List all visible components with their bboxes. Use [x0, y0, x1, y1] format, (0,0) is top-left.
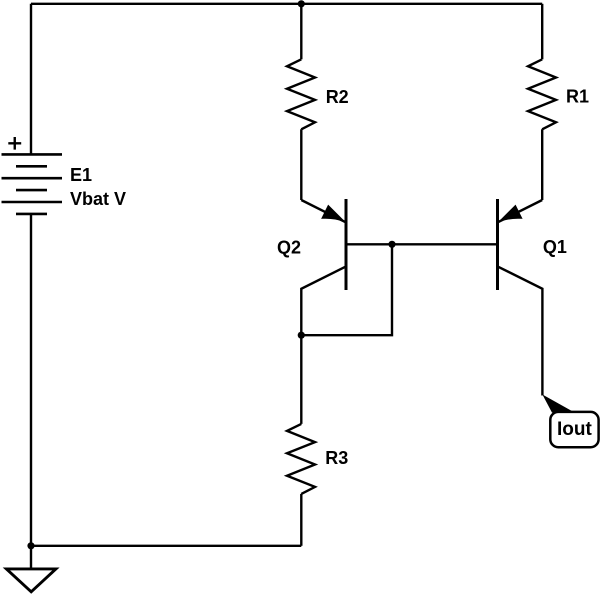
- transistor Q1 base bar: [496, 199, 499, 290]
- ground stub: [30, 546, 32, 569]
- svg-text:Q2: Q2: [277, 237, 301, 257]
- battery plus sign: [8, 137, 21, 150]
- wire: base to collector feedback: [301, 244, 392, 335]
- wire: top bus: [31, 3, 542, 5]
- wire: R1 top lead: [541, 4, 543, 60]
- ground: [6, 569, 56, 592]
- resistor R2: [287, 59, 315, 129]
- svg-text:Iout: Iout: [557, 419, 592, 440]
- wire: R2 bottom lead: [300, 129, 302, 200]
- node: collector / R3 junction: [298, 332, 305, 339]
- svg-text:Vbat V: Vbat V: [70, 189, 126, 209]
- svg-text:E1: E1: [70, 165, 92, 185]
- transistor Q1 emitter arrow: [500, 206, 522, 222]
- node: ground junction: [27, 542, 34, 549]
- transistor Q2 collector lead: [301, 266, 346, 335]
- node: base bus junction: [388, 241, 395, 248]
- transistor Q2 base bar: [345, 199, 348, 290]
- wire: battery positive to top-left corner: [30, 4, 32, 155]
- transistor Q2 emitter arrow: [322, 206, 344, 222]
- wire: R3 top lead: [300, 335, 302, 424]
- svg-text:R2: R2: [326, 87, 349, 107]
- wire: R3 bottom lead: [300, 494, 302, 546]
- svg-text:Q1: Q1: [543, 237, 567, 257]
- wire: R1 bottom lead: [541, 129, 543, 200]
- resistor R3: [287, 424, 315, 494]
- wire: R2 top lead: [300, 4, 302, 60]
- wire: base bus Q2 to Q1: [346, 243, 498, 245]
- svg-text:R1: R1: [566, 87, 589, 107]
- node: top bus / R2 junction: [298, 0, 305, 7]
- wire: bottom return bus: [31, 545, 301, 547]
- Iout flag box: [550, 412, 598, 447]
- transistor Q2 emitter lead: [301, 200, 346, 222]
- Iout callout pointer: [542, 395, 573, 413]
- wire: battery negative to ground node: [30, 214, 32, 546]
- transistor Q1 collector lead: [498, 266, 543, 395]
- resistor R1: [528, 59, 556, 129]
- svg-text:R3: R3: [325, 448, 348, 468]
- battery E1 plates: [2, 154, 63, 214]
- transistor Q1 emitter lead: [498, 200, 543, 222]
